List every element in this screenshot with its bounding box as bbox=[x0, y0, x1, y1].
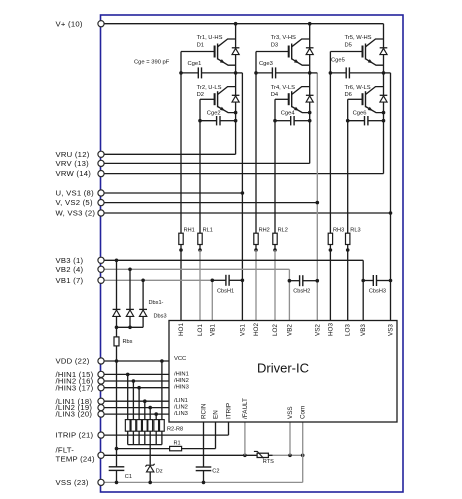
svg-text:/LIN2: /LIN2 bbox=[174, 405, 188, 411]
svg-text:RH3: RH3 bbox=[333, 228, 344, 234]
svg-text:VB3: VB3 bbox=[360, 324, 367, 336]
svg-text:D6: D6 bbox=[345, 92, 352, 98]
svg-text:CbsH2: CbsH2 bbox=[293, 289, 310, 295]
svg-text:ITRIP (21): ITRIP (21) bbox=[56, 431, 94, 440]
svg-text:HO1: HO1 bbox=[178, 323, 185, 336]
svg-text:HO2: HO2 bbox=[253, 323, 260, 336]
svg-text:VSS: VSS bbox=[287, 406, 294, 419]
svg-text:/HIN1: /HIN1 bbox=[174, 371, 189, 377]
svg-text:RTS: RTS bbox=[263, 459, 274, 465]
svg-text:/LIN1: /LIN1 bbox=[174, 398, 188, 404]
svg-text:Cge6: Cge6 bbox=[353, 111, 367, 117]
svg-text:Dbs3: Dbs3 bbox=[154, 314, 167, 320]
svg-text:Cge2: Cge2 bbox=[207, 111, 221, 117]
svg-text:Cge5: Cge5 bbox=[331, 58, 345, 64]
svg-text:HO3: HO3 bbox=[327, 323, 334, 336]
svg-text:Driver-IC: Driver-IC bbox=[257, 361, 309, 376]
svg-text:VS1: VS1 bbox=[239, 324, 246, 336]
svg-text:Tr2, U-LS: Tr2, U-LS bbox=[197, 85, 222, 91]
svg-text:RH1: RH1 bbox=[184, 228, 195, 234]
svg-text:V+ (10): V+ (10) bbox=[56, 19, 83, 28]
svg-text:D1: D1 bbox=[197, 43, 204, 49]
svg-text:/HIN3 (17): /HIN3 (17) bbox=[56, 383, 94, 392]
svg-text:/LIN3: /LIN3 bbox=[174, 411, 188, 417]
svg-text:RL1: RL1 bbox=[203, 228, 213, 234]
svg-text:EN: EN bbox=[213, 410, 220, 419]
svg-text:RL2: RL2 bbox=[278, 228, 288, 234]
svg-text:Cge3: Cge3 bbox=[259, 61, 273, 67]
svg-text:VB2: VB2 bbox=[286, 324, 293, 336]
svg-text:VB1 (7): VB1 (7) bbox=[56, 276, 84, 285]
svg-text:D3: D3 bbox=[271, 43, 278, 49]
svg-text:VB2 (4): VB2 (4) bbox=[56, 265, 84, 274]
svg-text:LO1: LO1 bbox=[197, 324, 204, 336]
svg-text:/LIN3 (20): /LIN3 (20) bbox=[56, 410, 93, 419]
svg-text:/FAULT: /FAULT bbox=[242, 398, 249, 419]
svg-text:CbsH1: CbsH1 bbox=[217, 289, 234, 295]
svg-text:Tr6, W-LS: Tr6, W-LS bbox=[345, 85, 371, 91]
svg-text:C1: C1 bbox=[125, 474, 132, 480]
svg-text:Dbs1-: Dbs1- bbox=[149, 300, 164, 306]
svg-text:D2: D2 bbox=[197, 92, 204, 98]
svg-text:VS3: VS3 bbox=[388, 324, 395, 336]
svg-text:VSS (23): VSS (23) bbox=[56, 478, 89, 487]
svg-text:Com: Com bbox=[300, 406, 307, 419]
svg-text:Tr3, V-HS: Tr3, V-HS bbox=[271, 35, 296, 41]
svg-text:Cge1: Cge1 bbox=[188, 61, 202, 67]
svg-text:Tr5, W-HS: Tr5, W-HS bbox=[345, 35, 372, 41]
svg-text:Tr4, V-LS: Tr4, V-LS bbox=[271, 85, 295, 91]
svg-text:TEMP (24): TEMP (24) bbox=[56, 454, 95, 463]
svg-text:VRV (13): VRV (13) bbox=[56, 159, 90, 168]
svg-text:Cge = 390 pF: Cge = 390 pF bbox=[134, 60, 170, 66]
svg-text:LO3: LO3 bbox=[345, 324, 352, 336]
svg-text:RH2: RH2 bbox=[259, 228, 270, 234]
svg-text:VRU (12): VRU (12) bbox=[56, 150, 90, 159]
svg-text:RL3: RL3 bbox=[350, 228, 360, 234]
svg-text:V, VS2 (5): V, VS2 (5) bbox=[56, 198, 93, 207]
svg-text:Dz: Dz bbox=[156, 469, 163, 475]
svg-text:W, VS3 (2): W, VS3 (2) bbox=[56, 209, 96, 218]
svg-text:D5: D5 bbox=[345, 43, 352, 49]
svg-text:ITRIP: ITRIP bbox=[226, 403, 233, 419]
svg-text:LO2: LO2 bbox=[272, 324, 279, 336]
svg-text:VRW (14): VRW (14) bbox=[56, 169, 92, 178]
svg-text:R1: R1 bbox=[174, 440, 181, 446]
svg-text:Tr1, U-HS: Tr1, U-HS bbox=[197, 35, 223, 41]
svg-text:CbsH3: CbsH3 bbox=[369, 289, 386, 295]
svg-text:VB3 (1): VB3 (1) bbox=[56, 256, 84, 265]
svg-text:D4: D4 bbox=[271, 92, 279, 98]
svg-text:C2: C2 bbox=[212, 469, 219, 475]
svg-text:VCC: VCC bbox=[174, 356, 186, 362]
svg-text:Rbs: Rbs bbox=[123, 339, 133, 345]
svg-text:/HIN3: /HIN3 bbox=[174, 385, 189, 391]
svg-text:VDD (22): VDD (22) bbox=[56, 357, 90, 366]
svg-text:RCIN: RCIN bbox=[201, 403, 208, 419]
svg-text:R2-R8: R2-R8 bbox=[167, 427, 183, 433]
svg-text:VS2: VS2 bbox=[314, 324, 321, 336]
svg-text:Cge4: Cge4 bbox=[281, 111, 296, 117]
svg-text:/HIN2: /HIN2 bbox=[174, 378, 189, 384]
svg-text:/FLT-: /FLT- bbox=[56, 445, 75, 454]
svg-text:U, VS1 (8): U, VS1 (8) bbox=[56, 189, 95, 198]
svg-text:VB1: VB1 bbox=[209, 324, 216, 336]
